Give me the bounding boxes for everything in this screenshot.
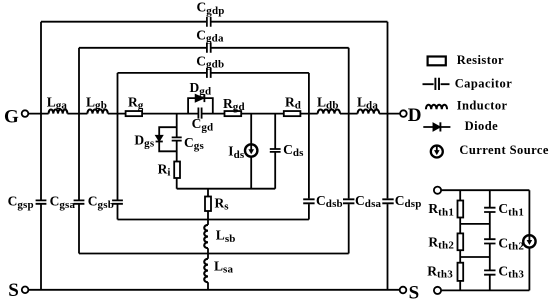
resistor Rg	[126, 111, 143, 116]
current source Ids branch wire	[250, 114, 252, 189]
legend diode symbol	[423, 122, 450, 131]
inductor Lga	[49, 109, 68, 113]
capacitor Cth2	[484, 239, 495, 243]
svg-text:S: S	[409, 282, 420, 302]
thermal network top wire	[441, 189, 529, 191]
terminal D	[400, 110, 407, 117]
wire Rth chain	[459, 190, 461, 290]
current source thermal branch wire	[528, 190, 530, 290]
capacitor Cgd	[198, 108, 201, 119]
inductor Ldb	[318, 110, 340, 114]
svg-text:G: G	[4, 106, 19, 127]
svg-text:Capacitor: Capacitor	[455, 77, 513, 91]
svg-text:Current Source: Current Source	[459, 143, 549, 157]
terminal G	[22, 110, 29, 117]
capacitor Cds branch wire	[274, 114, 276, 189]
terminal thermal top	[434, 187, 441, 194]
wire second box right	[348, 48, 350, 254]
inductor Lda	[358, 110, 380, 114]
legend current source symbol	[431, 145, 443, 158]
inductor Lsb	[204, 225, 208, 248]
terminal S right	[400, 287, 407, 294]
capacitor Cgs	[172, 137, 182, 140]
capacitor Cds	[270, 149, 281, 152]
inductor Lgb	[87, 110, 107, 114]
wire ladder rung 2	[460, 256, 490, 258]
wire intrinsic bottom rail	[177, 188, 276, 190]
resistor Ri	[174, 162, 180, 179]
diode Dgs	[156, 136, 163, 142]
wire Cth chain	[489, 190, 491, 290]
svg-text:Diode: Diode	[465, 119, 499, 133]
wire second box top	[79, 47, 349, 49]
wire third box bottom	[118, 219, 309, 221]
wire outer box top	[41, 21, 388, 23]
capacitor Cgsp	[36, 200, 47, 203]
resistor Rs	[205, 197, 211, 212]
capacitor Cdsb	[303, 199, 314, 203]
resistor Rth2	[458, 233, 464, 250]
terminal thermal bottom	[434, 287, 441, 294]
resistor Rd	[284, 111, 301, 116]
wire Dgs bypass loop	[159, 127, 177, 151]
capacitor Cdsa	[343, 199, 354, 203]
wire ladder rung 1	[460, 223, 490, 225]
thermal network bottom wire	[441, 289, 529, 291]
svg-text:Inductor: Inductor	[457, 99, 508, 113]
diode Dgd	[195, 94, 204, 102]
current source Ids	[245, 144, 257, 156]
legend capacitor symbol	[423, 78, 450, 90]
capacitor Cgsa	[74, 200, 85, 203]
resistor Rgd	[225, 111, 242, 116]
svg-text:D: D	[408, 105, 422, 126]
wire main gate-drain line	[28, 113, 400, 115]
wire outer box right	[387, 22, 389, 290]
wire third box left	[117, 73, 119, 220]
wire second box bottom	[79, 253, 349, 255]
capacitor Cth1	[484, 208, 495, 212]
capacitor Cdsp	[382, 199, 393, 203]
capacitor Cgdp	[207, 17, 211, 27]
current source thermal	[523, 235, 535, 247]
wire third box top	[118, 72, 309, 74]
svg-text:Resistor: Resistor	[457, 53, 504, 67]
wire Lsb branch	[207, 220, 209, 290]
legend inductor symbol	[426, 105, 447, 110]
resistor Rth3	[458, 263, 464, 281]
legend resistor symbol	[428, 57, 446, 66]
capacitor Cgdb	[207, 68, 211, 78]
inductor Lsa	[204, 259, 208, 283]
svg-text:S: S	[8, 280, 19, 301]
wire source branch with Rs	[207, 189, 209, 220]
wire Dgd bypass loop	[188, 98, 213, 114]
wire gate charging branch	[176, 114, 178, 189]
capacitor Cgsb	[112, 200, 123, 203]
resistor Rth1	[458, 201, 464, 218]
wire outer box left	[40, 22, 42, 290]
capacitor Cgda	[207, 43, 211, 53]
wire third box right	[308, 73, 310, 220]
wire outer box bottom (S rail)	[28, 289, 399, 291]
terminal S left	[22, 287, 29, 294]
wire second box left	[78, 48, 80, 254]
capacitor Cth3	[484, 270, 495, 274]
